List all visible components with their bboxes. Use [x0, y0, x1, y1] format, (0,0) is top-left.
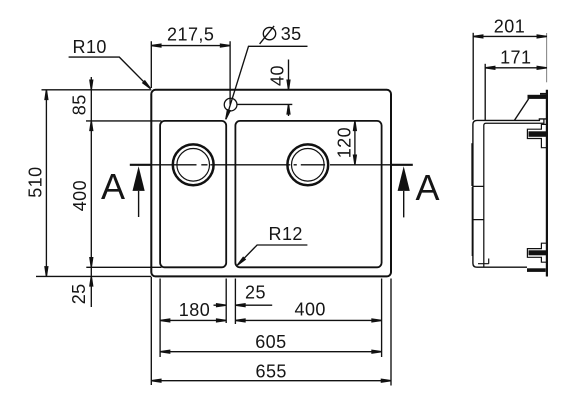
svg-text:25: 25: [69, 283, 89, 304]
svg-text:120: 120: [334, 127, 354, 158]
bottom extension lines: [151, 277, 391, 386]
faucet hole circle d35: [224, 98, 237, 111]
svg-text:35: 35: [281, 24, 302, 44]
svg-text:R10: R10: [73, 37, 107, 57]
right drain inner circle: [292, 149, 325, 182]
dimension 25 bottom: [214, 282, 273, 306]
side view bottom flange: [527, 268, 546, 272]
side view top flange: [528, 95, 547, 99]
svg-text:40: 40: [268, 65, 288, 86]
svg-text:201: 201: [494, 16, 525, 36]
section arrow right: [398, 166, 410, 217]
label R12 leader: [236, 224, 307, 266]
svg-text:510: 510: [25, 166, 45, 197]
svg-text:400: 400: [295, 299, 326, 319]
left bowl outline: [160, 121, 226, 267]
side view bottom clamp: [527, 243, 546, 262]
sink outer outline (top view): [151, 90, 391, 277]
svg-text:171: 171: [500, 47, 531, 67]
dimension 510: [25, 90, 151, 277]
label R10 leader: [69, 37, 152, 89]
left drain inner circle: [177, 149, 210, 182]
svg-text:180: 180: [179, 300, 210, 320]
section line thick left segment: [130, 164, 152, 166]
svg-text:400: 400: [70, 180, 90, 211]
svg-text:R12: R12: [269, 224, 303, 244]
dimension 400 bottom: [235, 299, 381, 321]
side view inner contour: [484, 119, 544, 267]
svg-text:605: 605: [255, 332, 286, 352]
side view right thick edge: [546, 90, 548, 277]
dimension 171: [485, 47, 547, 120]
side view outer contour: [473, 119, 547, 267]
side view flange diagonal: [514, 99, 528, 121]
svg-text:217,5: 217,5: [167, 24, 214, 44]
diameter symbol: [263, 27, 275, 39]
section arrow left: [133, 166, 145, 217]
right bowl outline: [235, 121, 381, 267]
svg-text:25: 25: [245, 282, 266, 302]
svg-text:85: 85: [70, 94, 90, 115]
dimension 180: [160, 300, 226, 322]
right drain outer circle: [287, 144, 328, 185]
section line thick right segment: [391, 164, 413, 166]
side view left bulge thick: [471, 143, 473, 186]
svg-text:655: 655: [256, 361, 287, 381]
dimension 217,5: [151, 24, 230, 104]
dimension 605: [160, 332, 382, 353]
svg-text:A: A: [101, 166, 125, 207]
dimension column 85 400 25: [69, 77, 162, 307]
left drain outer circle: [173, 144, 214, 185]
dimension d35 leader: [224, 24, 307, 120]
side view top ext dash: [546, 33, 548, 82]
dimension 120: [334, 121, 356, 165]
dimension 655: [151, 361, 391, 382]
section centerline through drains: [151, 164, 391, 166]
svg-text:A: A: [415, 167, 439, 208]
side view left steps: [473, 186, 489, 263]
dimension 40: [237, 60, 292, 117]
side view top clamp: [527, 124, 546, 147]
dimension 201: [473, 16, 547, 119]
